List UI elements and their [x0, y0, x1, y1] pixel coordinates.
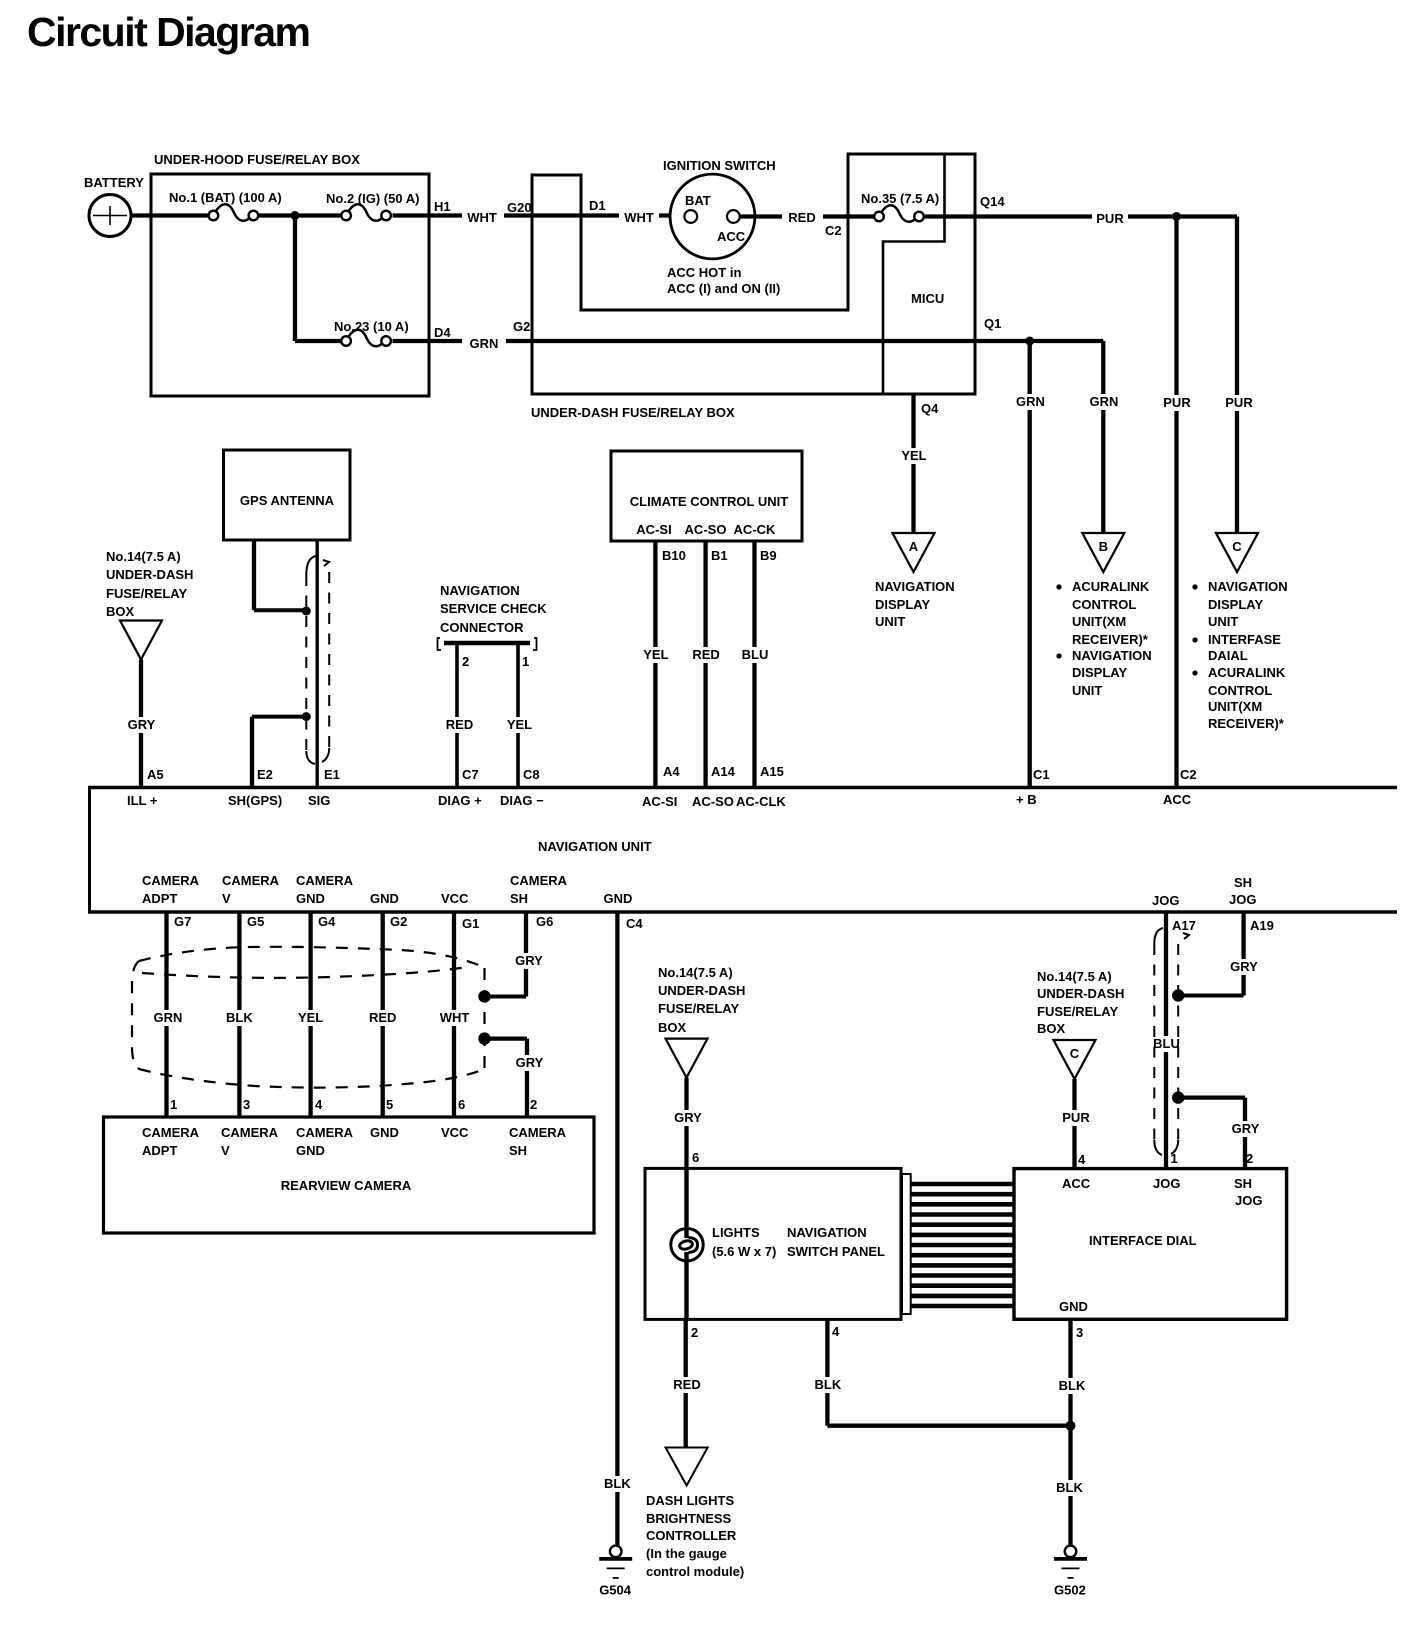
- svg-text:5: 5: [386, 1097, 393, 1112]
- svg-text:E1: E1: [324, 767, 340, 782]
- svg-text:RED: RED: [788, 210, 815, 225]
- wire label WHT: [436, 1010, 474, 1026]
- junction GRN: [1025, 337, 1034, 346]
- svg-text:3: 3: [1076, 1325, 1083, 1340]
- svg-text:AC-SO: AC-SO: [692, 794, 734, 809]
- under-dash fuse/relay box: [531, 154, 975, 420]
- wire JOG BLU A17 to interface dial: [1164, 912, 1168, 1169]
- wire PUR to interface dial ACC: [1072, 1079, 1076, 1169]
- svg-text:A5: A5: [147, 767, 164, 782]
- svg-text:CAMERA: CAMERA: [142, 1125, 200, 1140]
- svg-text:2: 2: [691, 1325, 698, 1340]
- svg-text:CAMERA: CAMERA: [510, 873, 568, 888]
- svg-text:4: 4: [1078, 1152, 1086, 1167]
- junction shield to GRY lower: [478, 1032, 490, 1044]
- JOG cable shield (dashed): [1154, 928, 1189, 1155]
- wire GPS SIG coax center: [316, 540, 319, 786]
- svg-text:WHT: WHT: [440, 1010, 470, 1025]
- svg-text:V: V: [222, 891, 231, 906]
- wire label WHT (D1-BAT): [619, 210, 659, 226]
- svg-text:GND: GND: [1059, 1299, 1088, 1314]
- svg-text:FUSE/RELAY: FUSE/RELAY: [658, 1001, 739, 1016]
- svg-text:ADPT: ADPT: [142, 891, 177, 906]
- svg-text:C2: C2: [1180, 767, 1197, 782]
- wire: under-dash box notch left edge (D1 riser): [580, 175, 583, 310]
- wire PUR to connector C: [1235, 217, 1239, 534]
- svg-text:GND: GND: [370, 1125, 399, 1140]
- wire GRN to C1 +B: [1028, 341, 1032, 786]
- wire label GRN: [1013, 394, 1049, 410]
- svg-text:ACURALINK: ACURALINK: [1208, 665, 1286, 680]
- GPS coax shield (dashed): [306, 556, 329, 764]
- svg-text:A14: A14: [711, 764, 736, 779]
- svg-text:VCC: VCC: [441, 891, 469, 906]
- wire label BLK: [222, 1010, 256, 1026]
- svg-text:JOG: JOG: [1153, 1176, 1180, 1191]
- svg-text:SH: SH: [1234, 875, 1252, 890]
- svg-text:B10: B10: [662, 548, 686, 563]
- svg-text:BRIGHTNESS: BRIGHTNESS: [646, 1511, 732, 1526]
- wire junction down to fuse No.23: [293, 216, 297, 342]
- wire fuse No.35 to Q14 / PUR branches: [925, 214, 1237, 218]
- svg-text:+ B: + B: [1016, 792, 1037, 807]
- svg-text:GND: GND: [370, 891, 399, 906]
- svg-text:BAT: BAT: [685, 193, 711, 208]
- wire label RED: [784, 210, 820, 226]
- ribbon cable: [911, 1184, 1015, 1306]
- svg-text:A4: A4: [663, 764, 680, 779]
- svg-text:G20: G20: [507, 200, 532, 215]
- svg-text:BOX: BOX: [658, 1020, 687, 1035]
- svg-text:H1: H1: [434, 199, 451, 214]
- svg-text:JOG: JOG: [1152, 893, 1179, 908]
- svg-text:GRN: GRN: [1090, 394, 1119, 409]
- svg-text:C: C: [1232, 539, 1242, 554]
- svg-text:1: 1: [1171, 1151, 1178, 1166]
- ignition switch: [663, 158, 780, 296]
- wire WHT to D1: [504, 213, 620, 217]
- fuse No.2 (IG) (50 A): [326, 191, 419, 221]
- ignition ACC terminal: [727, 210, 740, 223]
- ribbon cable connector (nav switch panel side): [902, 1174, 911, 1314]
- svg-text:AC-CLK: AC-CLK: [736, 794, 786, 809]
- GPS antenna box: [224, 450, 351, 540]
- svg-text:GRY: GRY: [1230, 959, 1258, 974]
- wire label YEL: [503, 717, 536, 733]
- svg-text:G6: G6: [536, 914, 553, 929]
- svg-text:CONTROLLER: CONTROLLER: [646, 1528, 737, 1543]
- junction shield to GRY lower: [1172, 1091, 1184, 1103]
- svg-text:SIG: SIG: [308, 793, 330, 808]
- svg-text:SH: SH: [510, 891, 528, 906]
- svg-text:V: V: [221, 1143, 230, 1158]
- wire PUR to C2 ACC: [1174, 217, 1178, 787]
- svg-text:WHT: WHT: [624, 210, 654, 225]
- wire GRY through lights (internal): [684, 1168, 688, 1238]
- svg-text:BLU: BLU: [742, 647, 769, 662]
- svg-text:RED: RED: [673, 1377, 700, 1392]
- wire label BLK: [600, 1476, 634, 1492]
- junction main bus: [291, 211, 300, 220]
- svg-text:SH: SH: [1234, 1176, 1252, 1191]
- svg-text:ACC: ACC: [717, 229, 746, 244]
- svg-text:CONTROL: CONTROL: [1072, 597, 1136, 612]
- svg-text:G502: G502: [1054, 1582, 1086, 1597]
- wire label RED: [690, 647, 723, 663]
- svg-text:PUR: PUR: [1062, 1110, 1090, 1125]
- fuse No.23 (10 A): [334, 319, 409, 346]
- wire label GRY: [1229, 1121, 1263, 1137]
- wire lights pin 2 RED to dash lights controller: [684, 1320, 688, 1448]
- svg-text:BATTERY: BATTERY: [84, 175, 144, 190]
- svg-text:A19: A19: [1250, 918, 1274, 933]
- svg-text:NAVIGATION: NAVIGATION: [875, 579, 955, 594]
- fuse feed triangle (middle): [666, 1039, 708, 1078]
- svg-text:A: A: [909, 539, 919, 554]
- svg-text:E2: E2: [257, 767, 273, 782]
- svg-text:A15: A15: [760, 764, 784, 779]
- svg-text:YEL: YEL: [643, 647, 668, 662]
- svg-text:ACC HOT in: ACC HOT in: [667, 265, 741, 280]
- svg-text:BLK: BLK: [1056, 1480, 1083, 1495]
- ground G504: [599, 1546, 632, 1598]
- wire nav switch panel pin 4 BLK: [825, 1320, 829, 1426]
- svg-text:GPS ANTENNA: GPS ANTENNA: [240, 493, 335, 508]
- MICU box: [883, 154, 945, 394]
- svg-text:GRY: GRY: [674, 1110, 702, 1125]
- svg-text:1: 1: [522, 654, 529, 669]
- svg-text:BLK: BLK: [815, 1377, 842, 1392]
- svg-text:UNDER-DASH: UNDER-DASH: [658, 983, 745, 998]
- svg-text:YEL: YEL: [298, 1010, 323, 1025]
- svg-text:CONTROL: CONTROL: [1208, 683, 1272, 698]
- lights bulb symbol (5.6W x 7): [671, 1229, 703, 1261]
- svg-text:No.14(7.5 A): No.14(7.5 A): [1037, 969, 1112, 984]
- svg-text:JOG: JOG: [1229, 892, 1256, 907]
- svg-text:UNDER-DASH: UNDER-DASH: [1037, 986, 1124, 1001]
- svg-text:G7: G7: [174, 914, 191, 929]
- svg-text:C: C: [1070, 1046, 1080, 1061]
- svg-text:D1: D1: [589, 198, 606, 213]
- svg-text:No.23 (10 A): No.23 (10 A): [334, 319, 409, 334]
- junction BLK: [1066, 1421, 1076, 1431]
- wire label GRY: [513, 1055, 547, 1071]
- wire GND C4 BLK to G504: [615, 912, 619, 1546]
- wire label PUR: [1059, 1110, 1093, 1126]
- wire ACC to RED label: [740, 214, 782, 218]
- svg-text:AC-CK: AC-CK: [734, 522, 776, 537]
- svg-text:DASH LIGHTS: DASH LIGHTS: [646, 1493, 734, 1508]
- service check connector bar: [438, 638, 537, 650]
- dash lights brightness controller triangle: [666, 1448, 708, 1486]
- svg-text:GRN: GRN: [470, 336, 499, 351]
- svg-text:BLK: BLK: [1059, 1378, 1086, 1393]
- wire fuse No.2 to H1/WHT: [393, 213, 463, 217]
- wire label BLK: [1053, 1480, 1087, 1496]
- svg-text:AC-SO: AC-SO: [685, 522, 727, 537]
- svg-text:JOG: JOG: [1235, 1193, 1262, 1208]
- wire CAMERA ADPT GRN: [164, 912, 168, 1117]
- wire fuse No.1 to fuse No.2: [259, 213, 342, 217]
- svg-text:RED: RED: [446, 717, 473, 732]
- wire GPS shield upper: [252, 540, 256, 610]
- svg-text:PUR: PUR: [1163, 395, 1191, 410]
- svg-text:B1: B1: [711, 548, 728, 563]
- svg-text:YEL: YEL: [507, 717, 532, 732]
- svg-text:PUR: PUR: [1225, 395, 1253, 410]
- svg-text:D4: D4: [434, 325, 451, 340]
- wire label PUR: [1221, 395, 1257, 411]
- svg-text:DISPLAY: DISPLAY: [875, 597, 930, 612]
- svg-text:DAIAL: DAIAL: [1208, 648, 1248, 663]
- wire CAMERA V BLK: [237, 912, 241, 1117]
- svg-text:ACC: ACC: [1062, 1176, 1091, 1191]
- ground G502: [1054, 1546, 1087, 1598]
- svg-text:CAMERA: CAMERA: [509, 1125, 567, 1140]
- wire label GRY: [512, 953, 546, 969]
- svg-text:LIGHTS: LIGHTS: [712, 1225, 760, 1240]
- wire RED to fuse No.35: [823, 214, 874, 218]
- svg-text:6: 6: [458, 1097, 465, 1112]
- svg-text:(5.6 W x 7): (5.6 W x 7): [712, 1244, 776, 1259]
- wire BLK to G502 junction: [827, 1424, 1070, 1428]
- wire GND RED: [381, 912, 385, 1117]
- svg-text:G4: G4: [318, 914, 336, 929]
- svg-text:SERVICE CHECK: SERVICE CHECK: [440, 601, 547, 616]
- wire label BLK: [811, 1377, 845, 1393]
- wire fuse No.23 to D4/GRN: [393, 339, 463, 343]
- svg-text:B9: B9: [760, 548, 777, 563]
- bullet list B: [1056, 584, 1061, 589]
- svg-text:CAMERA: CAMERA: [221, 1125, 279, 1140]
- svg-text:BOX: BOX: [106, 604, 135, 619]
- svg-text:PUR: PUR: [1096, 211, 1124, 226]
- svg-text:Q4: Q4: [921, 401, 939, 416]
- junction shield lower: [302, 712, 311, 721]
- junction shield to GRY upper: [1172, 989, 1184, 1001]
- connector A (to navigation display unit): [893, 533, 935, 572]
- svg-text:Circuit Diagram: Circuit Diagram: [27, 9, 311, 55]
- wire label GRY: [125, 717, 159, 733]
- svg-text:SWITCH PANEL: SWITCH PANEL: [787, 1244, 885, 1259]
- wire label YEL: [294, 1010, 328, 1026]
- wire AC-SO RED B1 to A14: [703, 541, 707, 786]
- svg-text:4: 4: [315, 1097, 323, 1112]
- svg-text:NAVIGATION: NAVIGATION: [1072, 648, 1152, 663]
- svg-text:GND: GND: [296, 891, 325, 906]
- svg-text:GND: GND: [604, 891, 633, 906]
- svg-text:INTERFASE: INTERFASE: [1208, 632, 1281, 647]
- svg-text:DIAG −: DIAG −: [500, 793, 544, 808]
- wire GRY to lights pin 6: [684, 1078, 688, 1169]
- svg-text:CLIMATE CONTROL UNIT: CLIMATE CONTROL UNIT: [630, 494, 788, 509]
- svg-text:UNIT(XM: UNIT(XM: [1072, 614, 1126, 629]
- junction shield upper: [302, 607, 311, 616]
- svg-text:G504: G504: [599, 1582, 632, 1597]
- svg-text:BLK: BLK: [604, 1476, 631, 1491]
- wire label RED: [670, 1377, 704, 1393]
- junction shield to GRY upper: [478, 990, 490, 1002]
- svg-text:AC-SI: AC-SI: [636, 522, 671, 537]
- wire service check 1 YEL to C8: [516, 645, 520, 786]
- wire label BLU: [739, 647, 772, 663]
- svg-text:ACURALINK: ACURALINK: [1072, 579, 1150, 594]
- svg-text:C4: C4: [626, 916, 643, 931]
- navigation unit (bottom edge): [88, 910, 1397, 914]
- wire GRN to connector B: [1101, 341, 1105, 533]
- svg-text:2: 2: [530, 1097, 537, 1112]
- svg-text:AC-SI: AC-SI: [642, 794, 677, 809]
- svg-text:GRY: GRY: [516, 1055, 544, 1070]
- svg-text:ADPT: ADPT: [142, 1143, 177, 1158]
- svg-text:RECEIVER)*: RECEIVER)*: [1072, 632, 1149, 647]
- wire label GRN (D4-G2): [464, 336, 504, 352]
- svg-text:DISPLAY: DISPLAY: [1208, 597, 1263, 612]
- svg-text:ACC: ACC: [1163, 792, 1192, 807]
- svg-text:Q14: Q14: [980, 194, 1005, 209]
- wire GRY to A5 ILL+: [139, 660, 143, 787]
- svg-text:FUSE/RELAY: FUSE/RELAY: [1037, 1004, 1118, 1019]
- wire label YEL: [897, 448, 931, 464]
- wire label BLU: [1150, 1036, 1184, 1052]
- svg-text:INTERFACE DIAL: INTERFACE DIAL: [1089, 1233, 1197, 1248]
- svg-text:FUSE/RELAY: FUSE/RELAY: [106, 586, 187, 601]
- wire label BLK: [1055, 1378, 1089, 1394]
- svg-text:6: 6: [692, 1150, 699, 1165]
- svg-text:REARVIEW CAMERA: REARVIEW CAMERA: [281, 1178, 412, 1193]
- wire label GRY: [1227, 959, 1261, 975]
- svg-text:WHT: WHT: [467, 210, 497, 225]
- wire label GRY: [671, 1110, 705, 1126]
- svg-text:G2: G2: [513, 319, 530, 334]
- svg-text:SH: SH: [509, 1143, 527, 1158]
- svg-text:NAVIGATION UNIT: NAVIGATION UNIT: [538, 839, 652, 854]
- svg-text:GRY: GRY: [128, 717, 156, 732]
- wire service check 2 RED to C7: [455, 645, 459, 786]
- fuse feed triangle (left): [120, 621, 162, 660]
- svg-text:4: 4: [832, 1324, 840, 1339]
- wire CAMERA SH GRY lower: [485, 1036, 527, 1040]
- svg-text:SH(GPS): SH(GPS): [228, 793, 282, 808]
- fuse No.35 (7.5 A): [861, 191, 939, 222]
- svg-text:YEL: YEL: [901, 448, 926, 463]
- wire CAMERA GND YEL: [308, 912, 312, 1117]
- navigation unit (left edge): [88, 786, 91, 914]
- wire label PUR: [1159, 395, 1195, 411]
- wire AC-CK BLU B9 to A15: [752, 541, 756, 786]
- svg-text:CAMERA: CAMERA: [222, 873, 280, 888]
- svg-text:BOX: BOX: [1037, 1021, 1066, 1036]
- wire label RED: [443, 717, 476, 733]
- wire to fuse No.23: [295, 339, 341, 343]
- connector C (to nav display/interface dial/AcuraLink): [1216, 533, 1258, 572]
- svg-text:C2: C2: [825, 223, 842, 238]
- svg-text:BLU: BLU: [1153, 1036, 1180, 1051]
- svg-text:(In the gauge: (In the gauge: [646, 1546, 727, 1561]
- svg-text:No.14(7.5 A): No.14(7.5 A): [106, 549, 181, 564]
- wire label PUR: [1092, 211, 1128, 227]
- svg-text:UNIT: UNIT: [1208, 614, 1238, 629]
- connector B (to AcuraLink/nav display): [1082, 533, 1124, 572]
- svg-text:RED: RED: [369, 1010, 396, 1025]
- svg-text:ACC (I) and ON (II): ACC (I) and ON (II): [667, 281, 780, 296]
- svg-text:CAMERA: CAMERA: [296, 1125, 354, 1140]
- svg-text:No.35 (7.5 A): No.35 (7.5 A): [861, 191, 939, 206]
- svg-text:VCC: VCC: [441, 1125, 469, 1140]
- fuse feed triangle C: [1054, 1040, 1096, 1079]
- svg-text:G1: G1: [462, 916, 479, 931]
- climate control unit box: [611, 451, 802, 541]
- bullet list C: [1192, 584, 1197, 589]
- ignition BAT terminal: [684, 210, 697, 223]
- svg-text:MICU: MICU: [911, 291, 944, 306]
- svg-text:DIAG +: DIAG +: [438, 793, 482, 808]
- svg-text:No.1 (BAT) (100 A): No.1 (BAT) (100 A): [169, 190, 282, 205]
- svg-text:BLK: BLK: [226, 1010, 253, 1025]
- wire GRY to SH JOG pin 2: [1178, 1095, 1245, 1099]
- svg-text:GRN: GRN: [1016, 394, 1045, 409]
- wire label GRN: [1086, 394, 1122, 410]
- svg-text:2: 2: [462, 654, 469, 669]
- svg-text:Q1: Q1: [984, 316, 1001, 331]
- svg-text:C8: C8: [523, 767, 540, 782]
- wire label RED: [366, 1010, 400, 1026]
- interface dial box: [1014, 1169, 1287, 1320]
- svg-text:1: 1: [170, 1097, 177, 1112]
- svg-text:No.14(7.5 A): No.14(7.5 A): [658, 965, 733, 980]
- wire interface dial GND pin 3 BLK to G502: [1068, 1319, 1072, 1545]
- wire Q4 YEL to connector A: [911, 394, 915, 533]
- under-hood fuse/relay box: [151, 152, 429, 396]
- svg-text:GND: GND: [296, 1143, 325, 1158]
- svg-text:NAVIGATION: NAVIGATION: [440, 583, 520, 598]
- svg-text:GRN: GRN: [154, 1010, 183, 1025]
- navigation unit (top edge): [88, 786, 1397, 790]
- rearview camera box: [104, 1117, 595, 1233]
- wire label WHT (H1-G20): [462, 210, 502, 226]
- svg-text:NAVIGATION: NAVIGATION: [1208, 579, 1288, 594]
- svg-text:GRY: GRY: [1232, 1121, 1260, 1136]
- battery: [84, 175, 144, 237]
- camera cable shield (dashed bundle): [132, 947, 485, 1088]
- svg-text:ILL +: ILL +: [127, 793, 158, 808]
- wire D1/WHT to ignition BAT: [659, 213, 684, 217]
- svg-text:UNIT(XM: UNIT(XM: [1208, 699, 1262, 714]
- wire GRN G2 through under-dash box to Q1 branches: [506, 339, 1103, 343]
- svg-text:CONNECTOR: CONNECTOR: [440, 620, 524, 635]
- wire AC-SI YEL B10 to A4: [653, 541, 657, 786]
- svg-text:UNDER-DASH FUSE/RELAY BOX: UNDER-DASH FUSE/RELAY BOX: [531, 405, 735, 420]
- svg-text:G2: G2: [390, 914, 407, 929]
- svg-text:CAMERA: CAMERA: [296, 873, 354, 888]
- navigation switch panel box: [645, 1168, 901, 1319]
- wire SH JOG GRY A19: [1241, 912, 1245, 996]
- wire CAMERA SH GRY upper: [524, 912, 528, 997]
- wire E2 SH(GPS): [250, 717, 254, 786]
- svg-text:UNDER-HOOD FUSE/RELAY BOX: UNDER-HOOD FUSE/RELAY BOX: [154, 152, 360, 167]
- svg-text:A17: A17: [1172, 918, 1196, 933]
- wire VCC WHT: [452, 912, 456, 1117]
- svg-text:UNDER-DASH: UNDER-DASH: [106, 567, 193, 582]
- svg-text:DISPLAY: DISPLAY: [1072, 665, 1127, 680]
- svg-text:UNIT: UNIT: [1072, 683, 1102, 698]
- svg-text:3: 3: [243, 1097, 250, 1112]
- junction PUR: [1172, 212, 1181, 221]
- svg-text:B: B: [1099, 539, 1108, 554]
- svg-text:GRY: GRY: [515, 953, 543, 968]
- svg-text:control module): control module): [646, 1564, 744, 1579]
- svg-text:IGNITION SWITCH: IGNITION SWITCH: [663, 158, 776, 173]
